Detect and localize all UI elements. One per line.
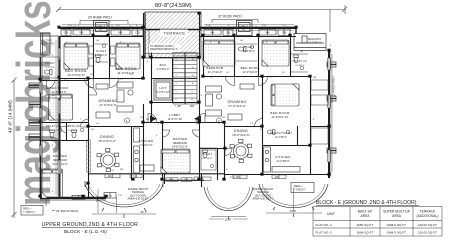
label bedroom 2 bbox=[115, 67, 136, 75]
label toilet center bbox=[202, 153, 213, 160]
svg-text:D2: D2 bbox=[282, 72, 286, 74]
svg-text:6'-4"X7'-10": 6'-4"X7'-10" bbox=[156, 90, 170, 94]
svg-text:22' ROOF PROJ: 22' ROOF PROJ bbox=[56, 209, 79, 213]
svg-text:C.B: C.B bbox=[184, 179, 188, 182]
svg-text:LOBBY: LOBBY bbox=[169, 113, 181, 117]
svg-text:5: 5 bbox=[176, 91, 178, 93]
svg-text:TOILET: TOILET bbox=[95, 49, 106, 53]
svg-text:1: 1 bbox=[158, 124, 160, 126]
svg-text:7'-6": 7'-6" bbox=[118, 195, 123, 197]
label drawing right bbox=[228, 100, 247, 108]
curved terrace left bbox=[85, 181, 163, 218]
roof proj bottom-left bbox=[46, 198, 55, 211]
label toilet A bbox=[46, 125, 61, 132]
svg-text:4: 4 bbox=[201, 59, 203, 61]
label bedroom right mid bbox=[270, 111, 289, 119]
bed bedroom left-lower bbox=[49, 94, 73, 120]
interior main walls bbox=[40, 13, 330, 197]
svg-text:9'-6": 9'-6" bbox=[262, 25, 267, 27]
bed center master bedroom bbox=[161, 149, 190, 173]
svg-text:W3: W3 bbox=[146, 119, 150, 121]
svg-text:20' ROOF PROJ: 20' ROOF PROJ bbox=[88, 16, 112, 20]
svg-text:6'-2"X10'-0": 6'-2"X10'-0" bbox=[95, 54, 107, 57]
svg-text:LIFT: LIFT bbox=[159, 86, 166, 90]
door arcs bbox=[85, 79, 94, 88]
duct box left bbox=[94, 21, 110, 36]
svg-text:WA: WA bbox=[210, 30, 214, 34]
table heading bbox=[316, 200, 419, 206]
svg-text:FLAT NO.-1: FLAT NO.-1 bbox=[316, 223, 333, 227]
svg-text:BED ROOM: BED ROOM bbox=[241, 66, 260, 70]
svg-text:10: 10 bbox=[192, 83, 195, 85]
washbasins bbox=[102, 44, 105, 47]
svg-text:4: 4 bbox=[147, 61, 149, 63]
interior detail lines bbox=[41, 44, 329, 170]
svg-text:12'-0"X6'-2": 12'-0"X6'-2" bbox=[308, 41, 322, 45]
svg-text:13'-6": 13'-6" bbox=[289, 209, 296, 213]
svg-text:7'-6"X12'-6": 7'-6"X12'-6" bbox=[139, 143, 152, 147]
svg-text:11'-0"X6'-0": 11'-0"X6'-0" bbox=[275, 137, 287, 139]
svg-text:14'-6"X12'-10": 14'-6"X12'-10" bbox=[271, 115, 288, 119]
svg-text:12'-8": 12'-8" bbox=[230, 177, 236, 179]
svg-text:4'-6": 4'-6" bbox=[110, 170, 115, 172]
svg-text:1968.0 SQ.FT.: 1968.0 SQ.FT. bbox=[387, 223, 407, 227]
svg-text:C.B: C.B bbox=[108, 195, 112, 197]
level box right bbox=[291, 183, 314, 193]
svg-text:CH: CH bbox=[240, 40, 244, 42]
svg-text:F: F bbox=[156, 135, 158, 137]
left dimension 49'-0" bbox=[12, 78, 17, 219]
svg-text:BED ROOM: BED ROOM bbox=[270, 111, 289, 115]
svg-text:4: 4 bbox=[176, 83, 178, 85]
svg-text:4: 4 bbox=[283, 25, 285, 27]
svg-text:AREA: AREA bbox=[392, 214, 402, 218]
svg-text:7: 7 bbox=[147, 99, 149, 101]
svg-text:WA: WA bbox=[79, 30, 83, 34]
svg-text:2'-4"X8'-0": 2'-4"X8'-0" bbox=[295, 65, 305, 67]
roof projection label left bbox=[80, 21, 128, 25]
svg-text:4: 4 bbox=[228, 25, 230, 27]
chajja ledges west wall bbox=[29, 83, 41, 88]
svg-text:UPPER GROUND,2ND & 4TH FLOOR: UPPER GROUND,2ND & 4TH FLOOR bbox=[42, 222, 139, 228]
label toilet right edge bbox=[293, 60, 308, 67]
curved terrace right bbox=[259, 184, 328, 217]
svg-text:16'-6"X13'-0": 16'-6"X13'-0" bbox=[98, 139, 116, 143]
svg-text:5'-0"X7'-6": 5'-0"X7'-6" bbox=[45, 67, 55, 69]
label toilet mid-top bbox=[95, 49, 107, 57]
svg-text:S: S bbox=[310, 169, 312, 171]
svg-text:AREA=130 SQ.FT.: AREA=130 SQ.FT. bbox=[128, 198, 149, 201]
svg-text:BLOCK - E (L.G.+5): BLOCK - E (L.G.+5) bbox=[64, 229, 107, 235]
svg-text:3: 3 bbox=[201, 95, 203, 97]
dining table left bbox=[97, 148, 119, 171]
svg-text:TOILET: TOILET bbox=[45, 62, 55, 65]
chajja ledges east wall bbox=[327, 62, 336, 67]
svg-text:11: 11 bbox=[192, 75, 195, 77]
svg-text:22' ROOF PROJ: 22' ROOF PROJ bbox=[218, 15, 242, 19]
label bedroom right A bbox=[206, 66, 223, 74]
svg-text:MASTER: MASTER bbox=[173, 137, 188, 141]
staircase bbox=[173, 53, 197, 105]
watermark magicbricks bbox=[7, 0, 60, 206]
svg-text:9'-6": 9'-6" bbox=[116, 25, 121, 27]
svg-text:TERRACE: TERRACE bbox=[420, 209, 437, 213]
svg-text:AREA=130 SQ.FT.: AREA=130 SQ.FT. bbox=[253, 198, 274, 201]
windows bottom strip bbox=[105, 174, 120, 178]
label kitchen left bbox=[139, 139, 154, 147]
svg-text:C.B: C.B bbox=[133, 175, 137, 178]
top dimension line 80'-8" bbox=[56, 5, 347, 32]
svg-text:VH: VH bbox=[300, 51, 303, 53]
label master bedroom left bbox=[53, 154, 68, 162]
svg-text:8: 8 bbox=[192, 99, 194, 101]
double height terrace text left bbox=[128, 188, 149, 201]
curved terrace middle bbox=[204, 187, 253, 220]
svg-text:C4: C4 bbox=[96, 123, 100, 125]
svg-text:3: 3 bbox=[176, 75, 178, 77]
wc fixtures bbox=[96, 55, 101, 63]
bed right flat mid bedroom bbox=[271, 84, 299, 106]
svg-text:DRESS (B): DRESS (B) bbox=[66, 126, 80, 128]
svg-text:49'-0" (14.94M): 49'-0" (14.94M) bbox=[8, 100, 14, 133]
svg-text:TERRACE: TERRACE bbox=[164, 31, 186, 36]
svg-text:(ADDITIONAL): (ADDITIONAL) bbox=[417, 214, 439, 218]
roof proj right vertical bbox=[332, 76, 336, 97]
exterior walls bbox=[40, 28, 329, 198]
caption bottom left bbox=[42, 222, 139, 235]
lobby entrance door symbols bbox=[150, 116, 201, 123]
svg-text:130.00 SQ.FT.: 130.00 SQ.FT. bbox=[418, 223, 438, 227]
svg-text:6: 6 bbox=[176, 99, 178, 101]
svg-text:D2: D2 bbox=[226, 72, 230, 74]
svg-text:SUPER BUILT-UP: SUPER BUILT-UP bbox=[383, 209, 411, 213]
svg-text:11'-2"X14'-0": 11'-2"X14'-0" bbox=[208, 70, 223, 74]
svg-text:4: 4 bbox=[78, 25, 80, 27]
svg-text:6'-6"X10'-0": 6'-6"X10'-0" bbox=[157, 68, 170, 71]
svg-text:7: 7 bbox=[80, 119, 82, 121]
label dining left bbox=[98, 135, 116, 143]
svg-text:1984.5 SQ.FT.: 1984.5 SQ.FT. bbox=[387, 231, 407, 235]
svg-text:WA: WA bbox=[169, 179, 173, 182]
svg-text:7 7093 F.T: 7 7093 F.T bbox=[23, 211, 35, 214]
dining table right bbox=[230, 139, 252, 162]
svg-text:17'-6"X14'-6": 17'-6"X14'-6" bbox=[99, 103, 117, 107]
sofas drawing left bbox=[117, 82, 133, 112]
svg-text:BLOCK - E (GROUND ,2ND & 4TH: BLOCK - E (GROUND ,2ND & 4TH FLOOR) bbox=[316, 200, 417, 206]
svg-text:1: 1 bbox=[126, 119, 128, 123]
svg-text:BALCONY: BALCONY bbox=[41, 40, 52, 43]
windows bbox=[58, 48, 61, 60]
svg-text:10'-0"X14'-6": 10'-0"X14'-6" bbox=[67, 73, 85, 77]
svg-text:W4: W4 bbox=[313, 77, 317, 79]
svg-text:WA: WA bbox=[275, 176, 279, 179]
label bedroom right B bbox=[241, 66, 260, 74]
label drawing left bbox=[99, 99, 118, 107]
svg-text:CH: CH bbox=[96, 40, 100, 42]
svg-text:WA: WA bbox=[77, 197, 81, 200]
label bedroom 1 bbox=[65, 69, 86, 77]
terrace chord lines bbox=[92, 188, 322, 217]
svg-text:TOILET (A): TOILET (A) bbox=[46, 125, 61, 128]
svg-text:BED ROOM: BED ROOM bbox=[50, 86, 69, 90]
svg-text:K: K bbox=[226, 169, 228, 171]
svg-text:D4: D4 bbox=[222, 117, 226, 119]
lift car bbox=[154, 80, 172, 100]
svg-text:C.B: C.B bbox=[64, 31, 69, 35]
bed right flat bedroom B bbox=[262, 40, 289, 66]
balcony top-right bbox=[294, 34, 326, 51]
svg-text:4: 4 bbox=[330, 45, 332, 47]
svg-text:4: 4 bbox=[313, 119, 315, 121]
label box room bbox=[157, 63, 170, 71]
label dining right bbox=[232, 129, 250, 137]
wardrobe/window strip left flat bbox=[61, 30, 71, 36]
svg-text:80'-8"(24.59M): 80'-8"(24.59M) bbox=[155, 3, 192, 9]
label kitchen right bbox=[275, 155, 290, 163]
balcony top-left bbox=[41, 33, 60, 55]
sofa table left bbox=[96, 84, 110, 118]
svg-text:130.00 SQ.FT.: 130.00 SQ.FT. bbox=[418, 231, 438, 235]
svg-text:BEDROOM: BEDROOM bbox=[206, 66, 223, 70]
sofa table right bbox=[228, 84, 254, 120]
svg-text:12'-8": 12'-8" bbox=[224, 218, 231, 222]
svg-text:9: 9 bbox=[192, 91, 194, 93]
label bedroom lower-left bbox=[50, 86, 69, 94]
duct box right bbox=[237, 21, 253, 36]
svg-text:1650 SQ.FT.: 1650 SQ.FT. bbox=[356, 223, 374, 227]
label dress B bbox=[66, 126, 80, 132]
svg-text:1664 SQ.FT: 1664 SQ.FT bbox=[357, 231, 374, 235]
svg-text:D4: D4 bbox=[91, 129, 95, 131]
svg-text:12'-0"X14'-0": 12'-0"X14'-0" bbox=[242, 70, 257, 74]
label lobby bbox=[167, 113, 182, 121]
svg-text:15'-0"X12'-6": 15'-0"X12'-6" bbox=[232, 133, 250, 137]
label toilet right-mid bbox=[243, 45, 255, 53]
label dress toilet right bbox=[270, 131, 292, 139]
svg-text:W3: W3 bbox=[120, 169, 124, 171]
svg-text:WA: WA bbox=[265, 30, 269, 34]
svg-text:UP: UP bbox=[177, 104, 181, 108]
svg-text:4: 4 bbox=[136, 25, 138, 27]
svg-text:C.B: C.B bbox=[135, 30, 140, 34]
svg-text:AC: AC bbox=[99, 28, 103, 32]
svg-text:7 7093 F.T: 7 7093 F.T bbox=[294, 189, 306, 192]
svg-text:DN: DN bbox=[190, 104, 194, 108]
svg-text:ROOF PROJ: ROOF PROJ bbox=[41, 44, 54, 46]
svg-text:AREA: AREA bbox=[361, 214, 371, 218]
svg-text:BALCONY: BALCONY bbox=[308, 37, 322, 41]
svg-text:FLAT NO.-2: FLAT NO.-2 bbox=[316, 231, 333, 235]
svg-text:BOX: BOX bbox=[160, 63, 167, 67]
bed bedroom top-left bbox=[64, 43, 88, 69]
micro dimension ticks and numbers bbox=[52, 18, 332, 198]
columns bbox=[57, 26, 60, 29]
roof projection label right bbox=[212, 20, 258, 24]
svg-text:12'-6"X14'-6": 12'-6"X14'-6" bbox=[51, 90, 66, 94]
kitchen counter left bbox=[134, 128, 155, 173]
svg-text:WA: WA bbox=[118, 30, 122, 34]
svg-text:(WEATHER PROOF'D+T): (WEATHER PROOF'D+T) bbox=[150, 48, 178, 51]
terrace dimension texts bbox=[96, 199, 296, 222]
label toilet far-left bbox=[45, 62, 55, 69]
double height terrace text right bbox=[253, 188, 274, 201]
svg-text:KITCHEN: KITCHEN bbox=[275, 155, 290, 159]
svg-text:9'-0": 9'-0" bbox=[68, 25, 73, 27]
level box left bbox=[21, 206, 43, 216]
kitchen counter right bbox=[264, 147, 301, 172]
svg-text:32'-7": 32'-7" bbox=[140, 210, 147, 214]
svg-text:C.B: C.B bbox=[226, 31, 231, 35]
window bottom-left wall bbox=[72, 195, 85, 199]
bed right flat bedroom A bbox=[203, 40, 235, 66]
svg-text:C.B: C.B bbox=[282, 30, 287, 34]
svg-text:WA: WA bbox=[108, 175, 112, 178]
svg-text:2: 2 bbox=[196, 124, 198, 126]
wall double-line detail bbox=[40, 26, 331, 200]
terrace hatched bbox=[145, 12, 201, 58]
area table bbox=[313, 207, 442, 237]
svg-text:C4: C4 bbox=[250, 123, 254, 125]
sofas drawing right bbox=[206, 86, 222, 116]
svg-text:11'-0"X8'-0": 11'-0"X8'-0" bbox=[276, 159, 290, 163]
svg-text:4'-6"X8'-6": 4'-6"X8'-6" bbox=[202, 158, 212, 160]
nightstand columns bedrooms bbox=[89, 46, 115, 66]
svg-text:UNIT: UNIT bbox=[327, 212, 335, 216]
svg-text:BUILT-UP: BUILT-UP bbox=[358, 209, 373, 213]
label lift bbox=[156, 86, 170, 94]
bed master bedroom bottom-left bbox=[42, 169, 63, 198]
hatched wall wedge dining/master bbox=[87, 140, 91, 172]
svg-text:KITCHEN: KITCHEN bbox=[139, 139, 154, 143]
label master bedroom center bbox=[173, 137, 188, 145]
svg-text:AC: AC bbox=[242, 28, 246, 32]
bed bedroom top-2 bbox=[116, 43, 140, 69]
svg-text:16'-2"X7'-10": 16'-2"X7'-10" bbox=[167, 117, 182, 121]
svg-text:14'-6"X12'-6": 14'-6"X12'-6" bbox=[172, 145, 188, 149]
svg-text:MASTER: MASTER bbox=[53, 154, 68, 158]
wardrobe/window strip right flat bbox=[204, 30, 221, 36]
svg-text:17'-6"X14'-0": 17'-6"X14'-0" bbox=[228, 104, 246, 108]
